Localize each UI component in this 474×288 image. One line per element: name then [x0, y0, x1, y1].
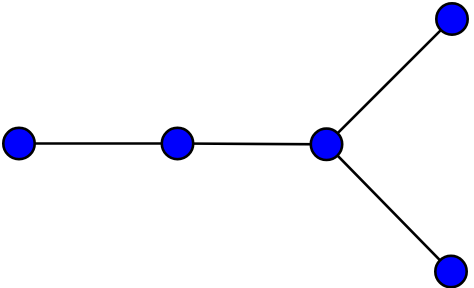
node v4 — [436, 3, 467, 34]
wire edge v2-v3 — [178, 142, 327, 145]
node v5 — [435, 256, 466, 287]
wire edge v1-v2 — [19, 142, 178, 145]
wire edge v3-v5 — [327, 144, 452, 271]
wire edge v3-v4 — [327, 19, 453, 144]
node v3 — [311, 129, 342, 160]
node v1 — [3, 128, 34, 159]
node v2 — [162, 128, 193, 159]
